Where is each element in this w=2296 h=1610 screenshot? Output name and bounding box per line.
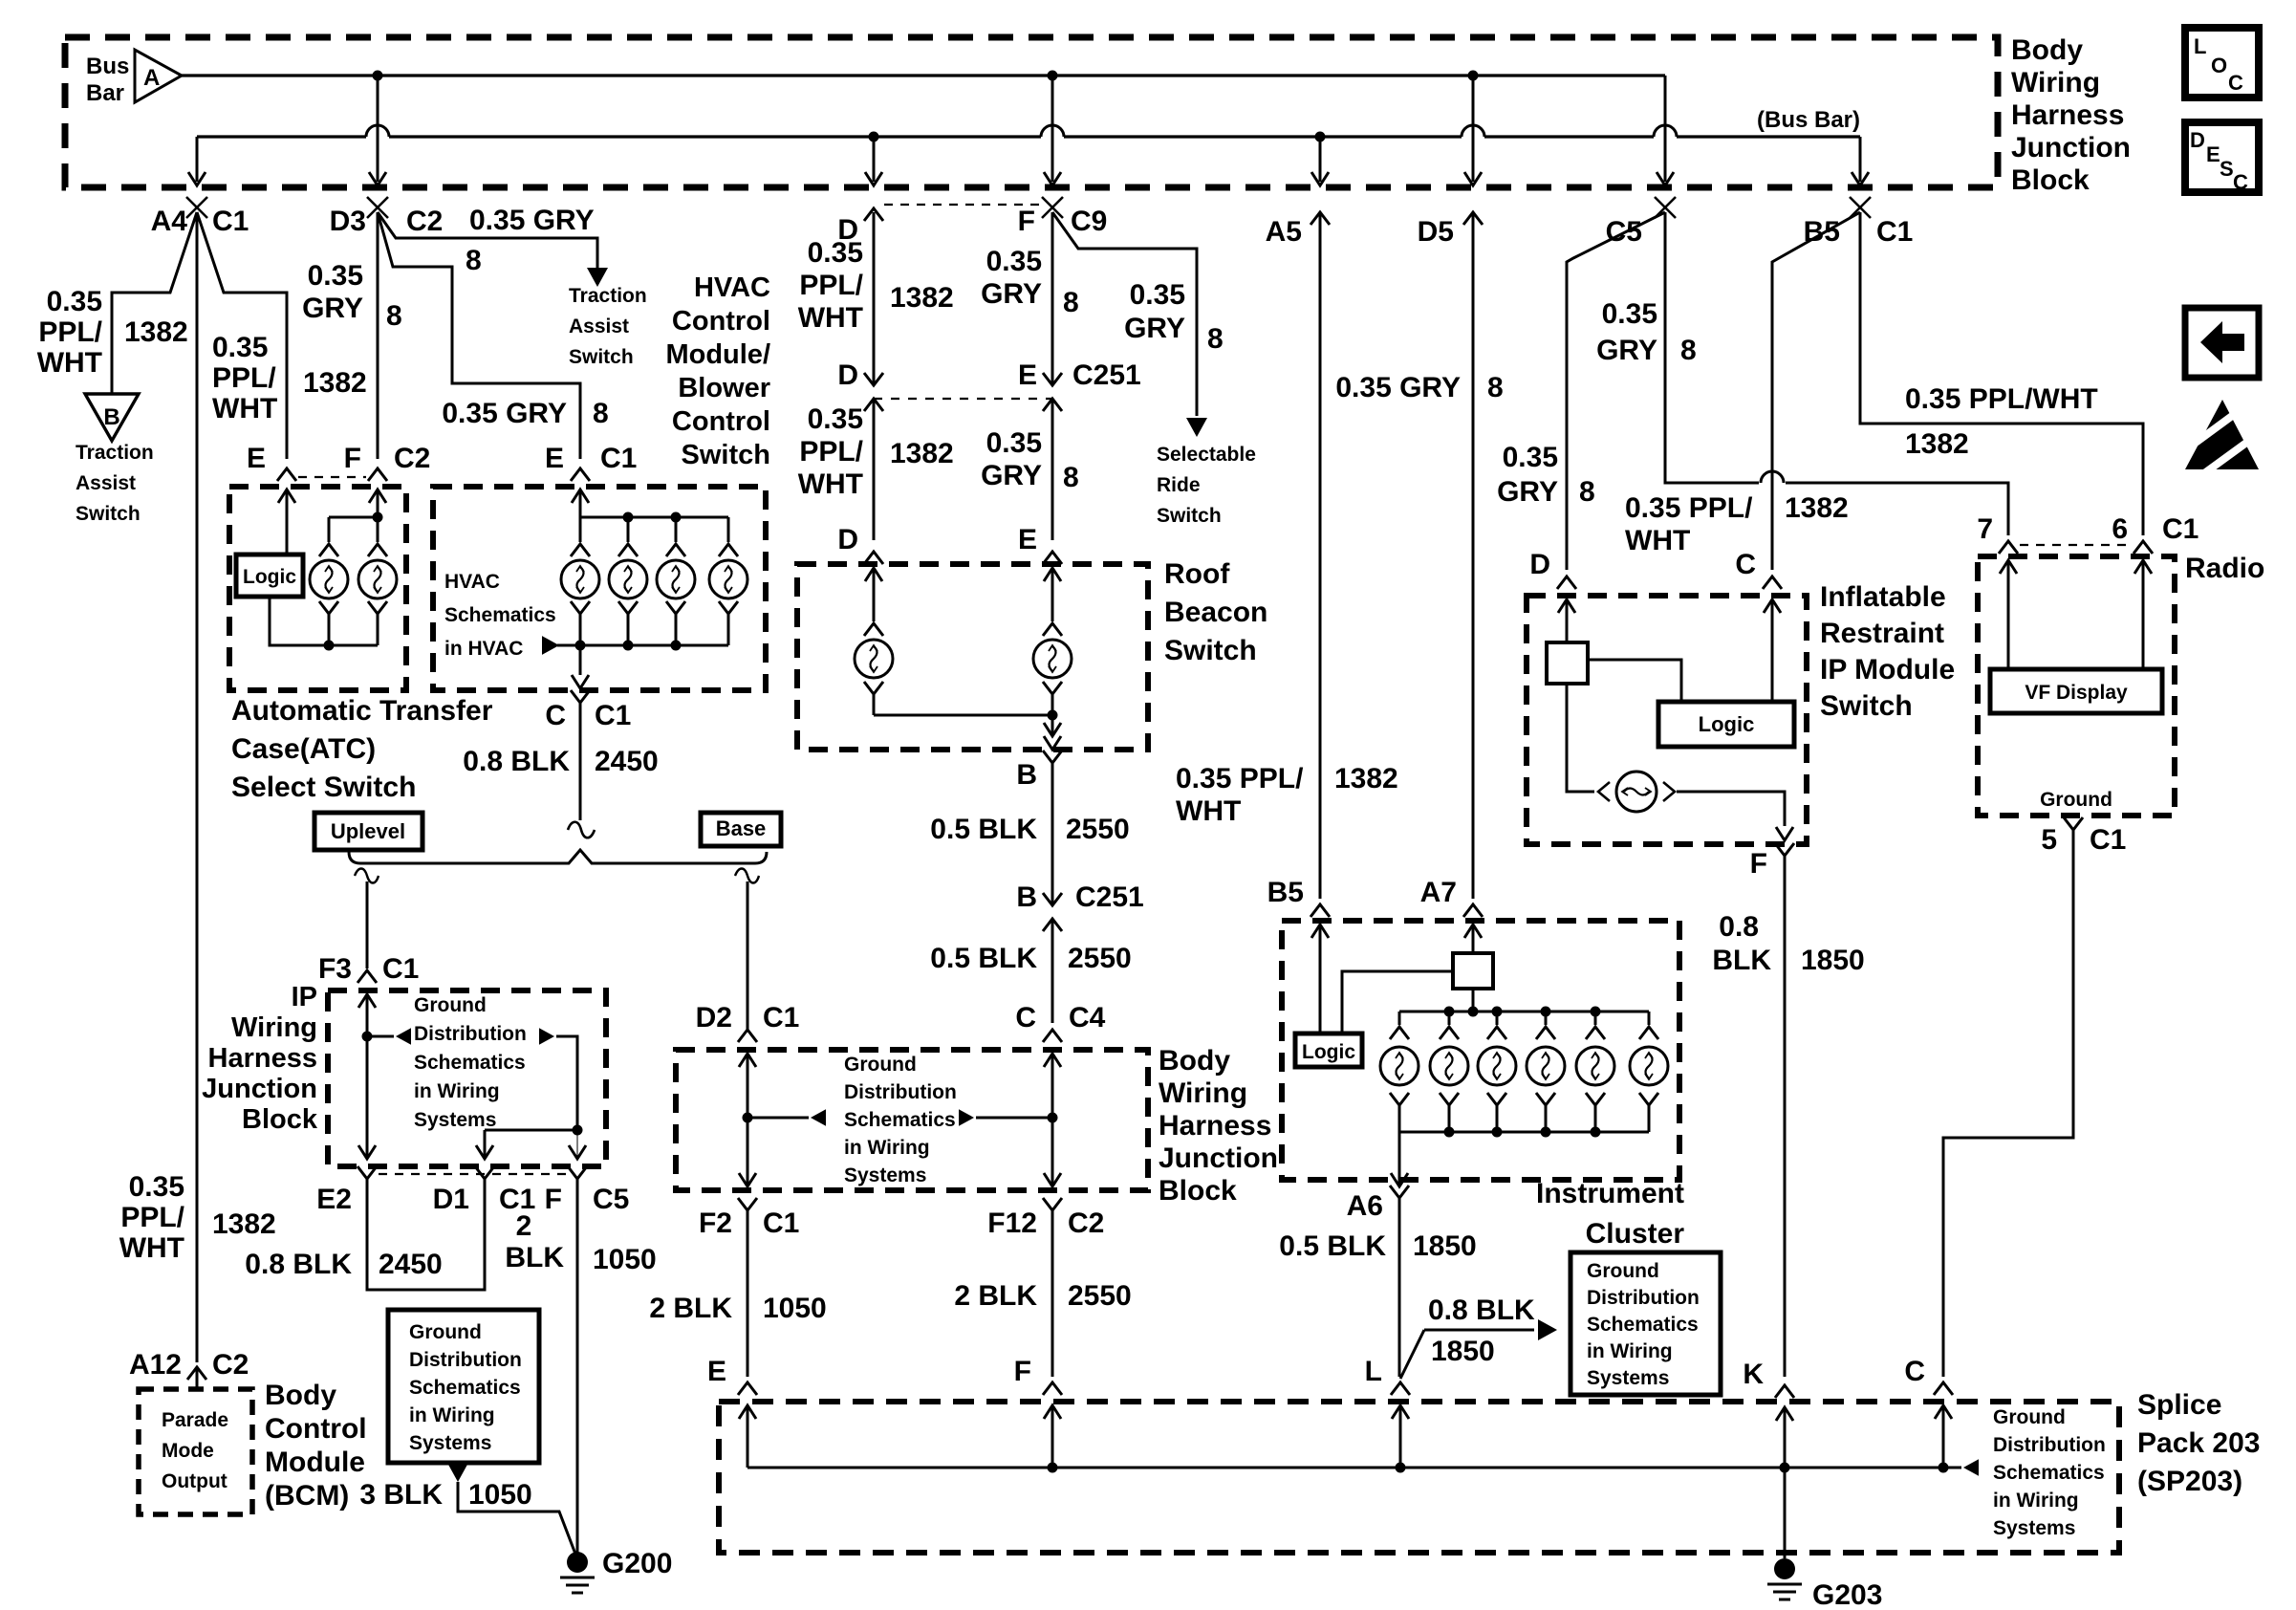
wire bus bar second line — [197, 135, 1860, 138]
svg-text:3 BLK: 3 BLK — [359, 1479, 443, 1511]
svg-text:HVAC: HVAC — [444, 571, 500, 593]
svg-text:0.35 PPL/: 0.35 PPL/ — [1176, 763, 1304, 794]
arrow into radio 7 — [2000, 560, 2017, 574]
svg-text:C: C — [1904, 1356, 1925, 1387]
svg-text:0.35: 0.35 — [986, 246, 1042, 277]
wire 0.8 BLK 1850 F to K — [1784, 856, 1787, 1377]
arrow down C5 — [1657, 172, 1674, 185]
connector A4 C1 splice — [186, 197, 207, 218]
svg-text:E: E — [545, 443, 564, 474]
ref arrow left IP — [396, 1028, 411, 1045]
arrow out middle block left — [739, 1173, 756, 1186]
svg-text:E: E — [1018, 359, 1037, 391]
wire roof beacon return bus — [874, 714, 1052, 717]
svg-text:1382: 1382 — [1785, 492, 1849, 524]
logic box inflatable — [1658, 702, 1794, 747]
wire into HVAC — [579, 490, 582, 517]
component box: Instrument Cluster — [1282, 921, 1679, 1180]
svg-text:1382: 1382 — [890, 282, 954, 314]
svg-text:Pack 203: Pack 203 — [2137, 1427, 2260, 1459]
svg-text:Block: Block — [2011, 164, 2090, 196]
svg-text:WHT: WHT — [798, 468, 863, 500]
svg-text:WHT: WHT — [1625, 525, 1690, 556]
indicator lamp cluster 5 — [1594, 1012, 1597, 1025]
connector D roof beacon — [864, 552, 883, 564]
svg-text:(BCM): (BCM) — [265, 1480, 349, 1512]
svg-text:0.8 BLK: 0.8 BLK — [463, 746, 570, 777]
svg-text:(SP203): (SP203) — [2137, 1466, 2242, 1497]
wire A7 to resistor — [1472, 925, 1475, 953]
svg-text:Ground: Ground — [1587, 1260, 1659, 1282]
svg-text:WHT: WHT — [119, 1232, 184, 1264]
svg-text:Control: Control — [672, 406, 770, 437]
svg-text:C2: C2 — [1068, 1207, 1104, 1239]
svg-text:7: 7 — [1977, 513, 1993, 545]
svg-text:L: L — [2194, 34, 2206, 58]
svg-text:0.5 BLK: 0.5 BLK — [930, 814, 1037, 845]
svg-text:Selectable: Selectable — [1157, 444, 1256, 466]
ref box: Ground Distribution Schematics (BCM) — [388, 1310, 539, 1463]
VF display box — [1990, 669, 2162, 713]
svg-text:C1: C1 — [212, 206, 249, 237]
svg-text:2550: 2550 — [1068, 1280, 1132, 1312]
svg-text:Uplevel: Uplevel — [331, 819, 405, 843]
option box Base — [701, 813, 781, 846]
connector D inflatable — [1557, 577, 1576, 589]
svg-text:WHT: WHT — [1176, 795, 1241, 827]
wire 0.35 GRY 8 to HVAC E — [378, 212, 580, 459]
arrow out roof beacon — [1044, 736, 1061, 750]
svg-text:Bus: Bus — [86, 54, 129, 79]
svg-text:F: F — [1014, 1356, 1031, 1387]
svg-text:0.35: 0.35 — [808, 403, 863, 435]
connector C splice — [1934, 1382, 1953, 1395]
wire 0.35 GRY 8 B5 to C inflatable — [1772, 212, 1860, 570]
svg-text:in Wiring: in Wiring — [409, 1404, 495, 1426]
connector L splice — [1391, 1382, 1410, 1395]
svg-text:0.35 GRY: 0.35 GRY — [442, 398, 567, 429]
wire hop at x395 — [366, 125, 389, 137]
svg-text:F: F — [344, 443, 361, 474]
svg-text:IP Module: IP Module — [1820, 654, 1955, 685]
wire 2 BLK 1050 F2 to E — [747, 1210, 749, 1377]
wire middle to ref right — [976, 1117, 1052, 1120]
icon back arrow — [2200, 321, 2244, 363]
wire splice to G203 — [1784, 1468, 1787, 1558]
connector D — [864, 208, 883, 221]
junction dot HVAC bus 1 — [623, 512, 634, 523]
indicator lamp HVAC 3 — [675, 517, 678, 542]
arrow down D3 — [369, 172, 386, 185]
svg-text:2450: 2450 — [379, 1249, 443, 1280]
svg-text:2550: 2550 — [1068, 943, 1132, 974]
svg-text:Distribution: Distribution — [844, 1081, 957, 1103]
wire splice C to bus — [1942, 1405, 1945, 1468]
component box: Roof Beacon Switch — [797, 564, 1148, 750]
svg-text:Ground: Ground — [409, 1321, 482, 1343]
arrow into cluster A7 — [1464, 925, 1482, 938]
svg-text:Control: Control — [672, 306, 770, 337]
indicator lamp HVAC 2 — [627, 517, 630, 542]
connector dashed link D-E C251 — [874, 398, 1052, 400]
svg-text:1382: 1382 — [303, 367, 367, 399]
svg-text:in HVAC: in HVAC — [444, 638, 523, 660]
ref arrow below BCM box — [447, 1463, 468, 1482]
svg-text:BLK: BLK — [505, 1242, 564, 1273]
component box: IP Wiring Harness Junction Block — [328, 990, 606, 1166]
svg-text:PPL/: PPL/ — [120, 1202, 184, 1233]
arrow into ATC E — [278, 490, 295, 503]
connector K splice — [1775, 1385, 1794, 1398]
indicator lamp ATC 1 — [328, 517, 331, 542]
connector D C251 — [864, 373, 883, 385]
svg-text:Module: Module — [265, 1447, 365, 1478]
wire splice F to bus — [1051, 1405, 1054, 1468]
svg-text:Schematics: Schematics — [444, 604, 556, 626]
wire IP bottom link — [485, 1129, 577, 1132]
svg-text:C1: C1 — [763, 1207, 799, 1239]
junction dot ATC lamp common — [324, 641, 335, 651]
svg-text:D: D — [837, 524, 858, 555]
svg-text:B5: B5 — [1267, 877, 1304, 908]
wire resistor to logic — [1342, 971, 1453, 1033]
svg-text:Schematics: Schematics — [409, 1377, 521, 1399]
wire 0.35 PPL/WHT 1382 to ATC E — [197, 212, 287, 459]
svg-text:1850: 1850 — [1431, 1336, 1495, 1367]
connector A12 C2 — [187, 1367, 206, 1380]
svg-text:B: B — [1016, 881, 1037, 913]
connector F inflatable — [1775, 843, 1794, 856]
wire 0.8 BLK 2450 E2 to D1 — [367, 1179, 485, 1290]
wire 0.35 GRY 8 to selectable ride switch — [1052, 212, 1197, 416]
connector E2 — [357, 1166, 377, 1179]
arrow into splice L — [1392, 1405, 1409, 1419]
svg-text:F12: F12 — [987, 1207, 1037, 1239]
svg-text:C5: C5 — [593, 1184, 629, 1215]
connector D3 C2 splice — [367, 197, 388, 218]
wire radio 7 to VF display — [2007, 560, 2010, 669]
svg-text:in Wiring: in Wiring — [844, 1137, 930, 1159]
svg-text:WHT: WHT — [37, 347, 102, 379]
svg-text:A12: A12 — [129, 1349, 182, 1381]
svg-text:Splice: Splice — [2137, 1389, 2221, 1421]
arrow out of IP block left — [358, 1145, 376, 1159]
svg-text:Output: Output — [162, 1470, 227, 1492]
logic box cluster — [1295, 1033, 1362, 1067]
svg-text:8: 8 — [1579, 476, 1595, 508]
svg-text:Systems: Systems — [409, 1432, 491, 1454]
svg-text:D5: D5 — [1418, 216, 1454, 248]
svg-text:E2: E2 — [316, 1184, 352, 1215]
wire through middle block right — [1051, 1054, 1054, 1186]
svg-text:Restraint: Restraint — [1820, 618, 1944, 649]
svg-text:in Wiring: in Wiring — [1993, 1490, 2079, 1512]
svg-text:1382: 1382 — [124, 316, 188, 348]
arrow into splice E — [739, 1405, 756, 1419]
svg-text:Assist: Assist — [569, 315, 629, 337]
icon box DESC — [2185, 122, 2259, 192]
wire 0.35 GRY 8 to traction assist switch — [378, 212, 597, 268]
svg-text:0.35 GRY: 0.35 GRY — [469, 205, 595, 236]
arrow into splice K — [1776, 1407, 1793, 1421]
svg-text:Inflatable: Inflatable — [1820, 581, 1946, 613]
component box: Automatic Transfer Case ATC Select Switch — [229, 487, 406, 690]
connector E splice — [738, 1382, 757, 1395]
connector F2 C1 — [738, 1198, 757, 1210]
arrow out middle block right — [1044, 1173, 1061, 1186]
svg-text:Switch: Switch — [1820, 690, 1913, 722]
arrow down F C9 — [1044, 172, 1061, 185]
connector F splice — [1043, 1382, 1062, 1395]
wire B5 to logic — [1319, 925, 1322, 1033]
icon box back-arrow — [2185, 308, 2259, 378]
svg-text:Parade: Parade — [162, 1409, 228, 1431]
svg-text:Switch: Switch — [682, 440, 770, 470]
svg-text:2: 2 — [516, 1210, 532, 1242]
svg-text:in Wiring: in Wiring — [414, 1080, 500, 1102]
indicator lamp roof beacon 2 — [1051, 591, 1054, 621]
arrow out cluster — [1391, 1173, 1408, 1186]
svg-text:F: F — [545, 1184, 562, 1215]
component box: Splice Pack 203 SP203 — [719, 1402, 2119, 1553]
wire drop D — [873, 137, 876, 182]
wire squiggle base branch — [735, 869, 759, 883]
svg-text:Junction: Junction — [2011, 132, 2131, 163]
arrow to selectable ride switch — [1186, 418, 1207, 437]
junction dot bus x1101 — [1048, 71, 1058, 81]
svg-text:Blower: Blower — [678, 373, 770, 403]
svg-text:F: F — [1750, 848, 1767, 880]
connector C inflatable — [1763, 577, 1782, 589]
wire HVAC lamp return bus — [557, 644, 728, 647]
junction dot HVAC return 1 — [575, 641, 586, 651]
wire 0.35 GRY 8 D5 to A7 — [1472, 212, 1475, 899]
ref arrow 0.8 BLK 1850 — [1538, 1319, 1557, 1340]
wire uplevel branch to F3 — [366, 881, 369, 968]
svg-text:Switch: Switch — [76, 503, 141, 525]
wire 0.35 PPL/WHT 1382 B5 to radio 6 — [1860, 212, 2143, 535]
svg-text:8: 8 — [593, 398, 609, 429]
wire into parade box — [196, 1367, 199, 1389]
svg-text:in Wiring: in Wiring — [1587, 1340, 1673, 1362]
svg-text:F2: F2 — [699, 1207, 732, 1239]
arrow into radio 6 — [2134, 560, 2152, 574]
svg-text:1382: 1382 — [212, 1208, 276, 1240]
svg-text:Logic: Logic — [1699, 712, 1755, 736]
svg-text:1050: 1050 — [468, 1479, 532, 1511]
svg-text:0.35: 0.35 — [808, 237, 863, 269]
svg-text:0.35: 0.35 — [212, 332, 268, 363]
component box: Body Wiring Harness Junction Block (middle) — [676, 1050, 1148, 1190]
connector C C4 — [1043, 1030, 1062, 1042]
svg-text:B5: B5 — [1804, 216, 1840, 248]
svg-text:2 BLK: 2 BLK — [954, 1280, 1037, 1312]
connector radio pin 7 — [1999, 541, 2018, 554]
svg-text:Ride: Ride — [1157, 474, 1201, 496]
wire option brace — [349, 850, 767, 863]
svg-text:VF Display: VF Display — [2025, 682, 2128, 704]
component box: Parade Mode Output — [139, 1389, 252, 1514]
svg-text:Junction: Junction — [1159, 1142, 1278, 1174]
svg-text:2550: 2550 — [1066, 814, 1130, 845]
svg-text:C1: C1 — [595, 700, 631, 731]
wire D to resistor inflatable — [1566, 599, 1569, 642]
arrow into HVAC — [572, 490, 589, 503]
svg-text:Distribution: Distribution — [409, 1349, 522, 1371]
icon ESD warning triangle — [2185, 400, 2259, 469]
connector C5 splice — [1655, 197, 1676, 218]
wire splice L to bus — [1399, 1405, 1402, 1468]
connector B C251 — [1043, 893, 1062, 905]
svg-text:Distribution: Distribution — [1587, 1287, 1700, 1309]
wire through middle block left — [747, 1054, 749, 1186]
svg-text:C1: C1 — [2090, 824, 2126, 856]
svg-text:C1: C1 — [382, 953, 419, 985]
svg-text:C: C — [2233, 170, 2248, 194]
wire 0.35 PPL/WHT 1382 to traction assist B — [112, 212, 197, 394]
svg-text:D: D — [837, 359, 858, 391]
junction dot cluster bus x1669 — [1591, 1007, 1601, 1017]
wire HVAC lamp feed bus — [580, 516, 728, 519]
svg-text:0.35: 0.35 — [1130, 279, 1185, 311]
wire 0.35 PPL/WHT 1382 D lower — [873, 399, 876, 540]
indicator lamp inflatable — [1598, 782, 1610, 801]
connector dashed link D-F — [884, 204, 1042, 206]
junction dot cluster return x1566 — [1492, 1127, 1503, 1138]
svg-text:Harness: Harness — [1159, 1110, 1271, 1142]
arrow down B5 — [1852, 172, 1869, 185]
connector E C1 (HVAC) — [571, 468, 590, 481]
junction dot splice bus x1867 — [1780, 1463, 1790, 1473]
wire splice K to bus — [1784, 1407, 1787, 1468]
wire drop B5 — [1859, 137, 1862, 182]
svg-text:8: 8 — [1063, 287, 1079, 318]
arrow into splice F — [1044, 1405, 1061, 1419]
wire C to logic inflatable — [1771, 599, 1774, 702]
svg-text:Module/: Module/ — [665, 339, 770, 370]
svg-text:Junction: Junction — [202, 1074, 317, 1104]
svg-text:8: 8 — [1063, 462, 1079, 493]
junction dot IP — [362, 1032, 373, 1042]
svg-text:0.35 PPL/WHT: 0.35 PPL/WHT — [1905, 383, 2098, 415]
svg-text:Bar: Bar — [86, 80, 124, 106]
svg-text:C1: C1 — [600, 443, 637, 474]
arrow into middle block left — [739, 1054, 756, 1067]
svg-text:PPL/: PPL/ — [799, 436, 863, 468]
connector F C9 splice — [1042, 197, 1063, 218]
wire 0.35 GRY 8 E upper — [1051, 212, 1054, 385]
connector E (ATC) — [277, 468, 296, 481]
ref arrow right IP — [539, 1028, 554, 1045]
wire resistor to lamp inflatable — [1567, 684, 1594, 792]
svg-text:Automatic Transfer: Automatic Transfer — [231, 695, 493, 727]
wire middle to ref left — [747, 1117, 809, 1120]
svg-text:Schematics: Schematics — [1993, 1462, 2105, 1484]
logic box ATC — [236, 555, 303, 597]
svg-text:8: 8 — [1207, 323, 1224, 355]
svg-text:C: C — [545, 700, 566, 731]
svg-text:GRY: GRY — [1124, 313, 1185, 344]
wire 2 BLK 2550 F12 to F — [1051, 1210, 1054, 1377]
wire 0.5 BLK 2550 lower — [1051, 919, 1054, 1023]
junction dot second line x1381 — [1315, 132, 1326, 142]
svg-text:Schematics: Schematics — [414, 1052, 526, 1074]
svg-text:D: D — [2190, 128, 2205, 152]
svg-text:Harness: Harness — [208, 1043, 317, 1074]
ref arrow splice pack — [1963, 1459, 1979, 1476]
wire diagonal 0.8 BLK 1850 — [1400, 1330, 1424, 1379]
connector F C5 — [568, 1166, 587, 1179]
svg-text:HVAC: HVAC — [694, 272, 770, 303]
arrow into ATC F — [369, 490, 386, 503]
wire drop C5 — [1664, 76, 1667, 182]
svg-text:E: E — [247, 443, 266, 474]
ref arrow left middle — [811, 1109, 826, 1126]
svg-text:C: C — [2228, 71, 2243, 95]
wire 2 BLK 1050 to G200 — [576, 1179, 579, 1555]
svg-text:0.5 BLK: 0.5 BLK — [1279, 1230, 1386, 1262]
svg-text:B: B — [103, 404, 119, 430]
svg-text:0.35: 0.35 — [129, 1171, 184, 1203]
svg-text:G200: G200 — [602, 1548, 672, 1579]
svg-text:C1: C1 — [2162, 513, 2199, 545]
svg-text:0.5 BLK: 0.5 BLK — [930, 943, 1037, 974]
junction dot cluster bus x1617 — [1541, 1007, 1551, 1017]
svg-text:Roof: Roof — [1164, 558, 1230, 590]
svg-text:Systems: Systems — [1587, 1367, 1669, 1389]
wire 0.35 PPL/WHT 1382 D upper — [873, 212, 876, 385]
svg-text:Distribution: Distribution — [414, 1023, 527, 1045]
wire drop A5 — [1319, 137, 1322, 182]
wire cluster out — [1398, 1132, 1401, 1186]
arrow into IP block — [358, 994, 376, 1008]
connector F12 C2 — [1043, 1198, 1062, 1210]
svg-text:D3: D3 — [330, 206, 366, 237]
arrow out of IP right — [569, 1145, 586, 1159]
component box: HVAC Control Module Blower Control Switch — [433, 487, 766, 690]
svg-text:Wiring: Wiring — [2011, 67, 2100, 98]
junction dot roof beacon — [1048, 710, 1058, 721]
wire hop at x1101 — [1041, 125, 1064, 137]
svg-text:GRY: GRY — [302, 293, 363, 324]
wire base branch to D2 — [747, 881, 749, 1030]
svg-text:Case(ATC): Case(ATC) — [231, 733, 376, 765]
wire bus bar main line — [182, 74, 1665, 76]
svg-text:C1: C1 — [1876, 216, 1913, 248]
svg-text:BLK: BLK — [1712, 945, 1771, 976]
indicator lamp cluster 4 — [1545, 1012, 1548, 1025]
svg-text:Traction: Traction — [569, 285, 647, 307]
arrow into roof beacon E — [1044, 568, 1061, 581]
svg-text:C1: C1 — [763, 1002, 799, 1033]
svg-text:0.35: 0.35 — [308, 260, 363, 292]
svg-text:1850: 1850 — [1413, 1230, 1477, 1262]
svg-text:A5: A5 — [1266, 216, 1302, 248]
wire logic to lamp common — [270, 597, 378, 645]
wire roof beacon out — [1051, 715, 1054, 734]
svg-text:Radio: Radio — [2185, 553, 2264, 584]
junction dot cluster bus x1566 — [1492, 1007, 1503, 1017]
svg-text:K: K — [1743, 1359, 1764, 1390]
icon box LOC — [2185, 28, 2259, 98]
connector dashed link E2-C5 — [379, 1173, 566, 1175]
wire 0.8 BLK 2450 down — [579, 703, 582, 820]
svg-text:Ground: Ground — [1993, 1406, 2066, 1428]
wire hop at x1541 — [1462, 125, 1484, 137]
wire IP to schematic ref left — [367, 1035, 394, 1038]
svg-text:0.35: 0.35 — [1602, 298, 1657, 330]
junction dot middle left — [743, 1113, 753, 1123]
